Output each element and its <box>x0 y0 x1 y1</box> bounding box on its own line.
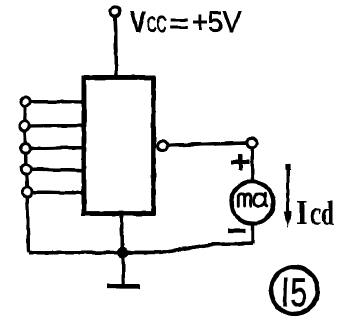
arrow Icd <box>284 164 291 228</box>
wire input pin 1 <box>29 100 86 104</box>
terminal Vcc <box>110 7 119 16</box>
terminal output <box>158 141 168 151</box>
svg-text:cd: cd <box>311 196 335 233</box>
wire output stub <box>154 144 159 147</box>
svg-text:I: I <box>296 193 308 232</box>
svg-text:V: V <box>130 4 146 39</box>
wire input pin 5 <box>31 190 86 194</box>
terminal input 4 <box>21 164 31 174</box>
wire IC bottom pin <box>122 214 123 253</box>
wire input pin 4 <box>30 169 86 170</box>
svg-text:+5V: +5V <box>192 6 241 39</box>
label plus <box>232 154 250 170</box>
wire meter bottom <box>251 224 254 244</box>
wire input chain vertical <box>25 102 29 253</box>
terminal input 5 <box>22 187 32 197</box>
ground <box>107 284 141 289</box>
label Icd <box>296 193 334 233</box>
wire input pin 3 <box>29 146 86 150</box>
terminal input 1 <box>21 97 31 107</box>
wire Vcc stem <box>115 16 116 77</box>
wire output to meter node <box>168 143 247 145</box>
svg-text:=: = <box>169 8 189 41</box>
label ma <box>238 193 267 206</box>
terminal meter top <box>247 138 257 148</box>
IC U1 body <box>84 78 154 214</box>
wire ground stem <box>121 253 125 285</box>
wire input pin 2 <box>29 124 87 128</box>
svg-text:CC: CC <box>147 11 167 37</box>
figure number 15 circle <box>271 267 318 314</box>
label 15 <box>285 271 307 315</box>
junction dot <box>117 247 128 258</box>
label Vcc=+5V <box>130 4 241 41</box>
wire node to meter <box>251 148 255 182</box>
terminal input 3 <box>21 144 31 154</box>
wire bottom rail <box>29 243 253 253</box>
svg-text:5: 5 <box>291 271 308 315</box>
terminal input 2 <box>20 121 30 131</box>
meter ma <box>231 182 273 224</box>
label minus <box>228 228 246 232</box>
